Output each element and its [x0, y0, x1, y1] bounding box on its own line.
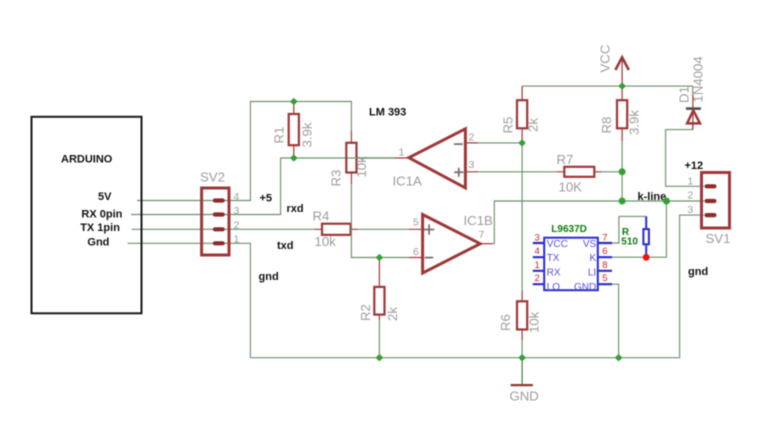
SV1 pad 2 [705, 199, 717, 203]
svg-text:gnd: gnd [688, 266, 708, 278]
SV2 pad 4 [213, 198, 225, 202]
svg-text:3: 3 [535, 233, 540, 244]
wire VCC top rail [522, 86, 693, 96]
svg-text:2: 2 [687, 190, 693, 202]
svg-text:TX: TX [547, 253, 560, 264]
IC1A minus sign [454, 143, 463, 145]
junction R2 top IC1B pin6 [376, 254, 384, 262]
wire R7 right to R8 vertical [601, 171, 622, 173]
IC U1 L9637D body [544, 238, 598, 291]
junction R5 bottom IC1A pin2 [518, 139, 526, 147]
SV1 pad 1 [705, 184, 717, 188]
resistor R2 [378, 258, 380, 321]
svg-text:+5: +5 [260, 193, 273, 205]
svg-text:5V: 5V [98, 191, 112, 203]
svg-text:R4: R4 [313, 209, 330, 224]
junction R7 R8 [619, 168, 626, 175]
svg-text:R3: R3 [329, 170, 344, 187]
svg-text:7: 7 [479, 229, 485, 241]
wire rxd net from SV2 pin3 up to IC1A output row [225, 158, 396, 215]
wire IC1A pin3 to R7 [478, 171, 557, 173]
svg-text:D1: D1 [677, 86, 692, 103]
resistor R7 [557, 171, 601, 173]
connector SV2 [202, 188, 229, 255]
svg-text:R7: R7 [557, 152, 574, 167]
wire R8 bottom vertical to k-line [621, 141, 623, 201]
wire txd net from SV2 pin2 to R4 [225, 228, 316, 230]
wire R3 bottom to IC1B pin6 row [351, 184, 409, 258]
wire L9637D K pin to k-line [612, 201, 666, 257]
svg-text:Gnd: Gnd [87, 237, 109, 249]
svg-text:IC1B: IC1B [464, 213, 494, 228]
wire D1 bottom to SV1 pin1 [666, 125, 704, 187]
SV1 pad 3 [705, 213, 717, 217]
wire gnd net from SV2 pin1 down to ground bus [225, 243, 251, 357]
wire RX arduino to SV2 pin3 [131, 214, 213, 216]
svg-text:VCC: VCC [598, 44, 613, 72]
svg-text:3: 3 [234, 205, 240, 217]
wire reference divider vertical R5 to R6 [521, 143, 523, 291]
junction k-line SV1 [663, 198, 670, 205]
svg-text:L9637D: L9637D [551, 224, 587, 235]
svg-text:1: 1 [687, 176, 693, 188]
resistor R5 [521, 86, 523, 143]
svg-text:R2: R2 [358, 304, 373, 321]
op-amp IC1B [409, 229, 423, 257]
svg-text:R1: R1 [272, 127, 287, 144]
svg-text:10k: 10k [315, 234, 337, 249]
wire IC1A pin2 to R5 bottom junction [478, 142, 522, 144]
SV2 pad 1 [213, 241, 225, 245]
svg-text:1: 1 [234, 234, 240, 246]
op-amp IC1A [395, 157, 409, 159]
svg-text:+12: +12 [685, 160, 704, 172]
wire 5V arduino to SV2 pin4 [137, 200, 213, 202]
svg-text:4: 4 [234, 191, 240, 203]
svg-text:1: 1 [399, 146, 405, 158]
svg-text:LM 393: LM 393 [369, 107, 406, 119]
wire k-line from IC1B output to SV1 pin2 [492, 201, 704, 244]
wire R4 right to IC1B pin5 [358, 228, 409, 230]
svg-text:510: 510 [621, 237, 638, 248]
svg-text:2: 2 [469, 132, 475, 144]
L9637D right pin stubs [598, 243, 612, 284]
svg-text:K: K [590, 253, 597, 264]
wire rxd crossing through R3 body [348, 157, 396, 159]
svg-text:3: 3 [469, 159, 475, 171]
wire R2 bottom to ground bus [378, 320, 380, 358]
svg-text:5: 5 [413, 217, 419, 229]
svg-text:8: 8 [602, 260, 607, 271]
svg-text:R5: R5 [501, 117, 516, 134]
junction R6 ground bus [518, 354, 526, 362]
diode D1 1N4004 [692, 95, 694, 130]
svg-text:SV2: SV2 [200, 170, 225, 185]
resistor R 510 [645, 216, 647, 257]
VCC power symbol [621, 57, 623, 86]
svg-text:4: 4 [535, 246, 540, 257]
IC1A plus sign [454, 168, 463, 177]
resistor R4 [315, 228, 358, 230]
junction R510 bottom K red [643, 254, 650, 261]
wire L9637D VS pin to R510 top [612, 216, 646, 243]
junction R1 bottom rxd [290, 154, 298, 162]
svg-text:ARDUINO: ARDUINO [61, 153, 113, 165]
svg-text:3.9k: 3.9k [627, 110, 642, 135]
resistor R6 [521, 291, 523, 340]
svg-text:VCC: VCC [547, 239, 568, 250]
IC1B plus sign [424, 225, 434, 235]
connector SV1 [702, 173, 730, 229]
svg-text:5: 5 [602, 273, 607, 284]
wire L9637D GND pin to ground bus [612, 284, 619, 358]
svg-text:txd: txd [277, 240, 294, 252]
svg-text:R6: R6 [498, 314, 513, 331]
svg-text:2: 2 [234, 219, 240, 231]
svg-text:RX 0pin: RX 0pin [81, 209, 122, 221]
resistor R3 [350, 131, 352, 184]
svg-text:LI: LI [588, 268, 596, 279]
SV2 pad 3 [213, 212, 225, 216]
svg-text:GND: GND [510, 389, 539, 404]
wire ground bus [250, 215, 704, 358]
svg-text:6: 6 [602, 246, 607, 257]
svg-text:7: 7 [602, 233, 607, 244]
junction VCC rail [618, 82, 626, 90]
svg-text:R8: R8 [599, 117, 614, 134]
junction R1 top [290, 98, 298, 106]
svg-text:3: 3 [687, 204, 693, 216]
svg-text:1: 1 [535, 260, 540, 271]
resistor R8 [621, 86, 623, 141]
ground symbol GND [521, 358, 523, 384]
svg-text:10K: 10K [559, 179, 583, 194]
wire Gnd arduino to SV2 pin1 [128, 242, 214, 244]
svg-text:1N4004: 1N4004 [691, 56, 706, 102]
resistor R1 [293, 102, 295, 159]
ARDUINO box [32, 117, 142, 313]
SV2 pad 2 [213, 227, 225, 231]
wire R6 bottom to ground bus [521, 340, 523, 358]
svg-text:2: 2 [535, 273, 540, 284]
svg-text:IC1A: IC1A [393, 174, 423, 189]
IC1B minus sign [425, 257, 433, 259]
junction R2 ground bus [376, 354, 384, 362]
svg-text:10k: 10k [527, 311, 542, 333]
wire +5 net from SV2 pin4 up and across to R3 top [225, 102, 352, 201]
svg-text:TX 1pin: TX 1pin [80, 222, 120, 234]
svg-text:SV1: SV1 [706, 231, 731, 246]
wire TX arduino to SV2 pin2 [132, 228, 214, 230]
svg-text:3.9k: 3.9k [300, 122, 315, 147]
L9637D left pin stubs [533, 243, 544, 284]
junction L9637D gnd bus [615, 354, 623, 362]
svg-text:10k: 10k [354, 156, 369, 178]
svg-text:VS: VS [583, 239, 597, 250]
svg-text:RX: RX [547, 268, 561, 279]
svg-text:rxd: rxd [287, 203, 304, 215]
svg-text:2k: 2k [385, 307, 400, 321]
svg-text:k-line: k-line [638, 191, 667, 203]
junction R8 k-line [619, 198, 626, 205]
svg-text:6: 6 [413, 246, 419, 258]
svg-text:2k: 2k [526, 118, 541, 132]
svg-text:GND: GND [574, 282, 596, 293]
svg-text:LO: LO [547, 282, 561, 293]
svg-text:gnd: gnd [259, 271, 279, 283]
